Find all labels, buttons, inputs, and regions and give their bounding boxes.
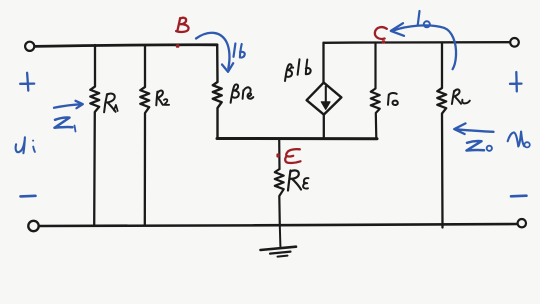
annotations: blue pen [16,11,530,196]
label beta-re [231,84,239,102]
resistor RE [275,169,284,225]
labels: black handwriting [104,59,470,190]
arrow Io [393,25,457,69]
label beta-Ib (source gain) [285,64,292,81]
label Io [418,11,420,26]
node E label [285,149,300,163]
dependent current source beta-Ib [322,43,324,83]
label R2 [156,91,163,106]
input terminal top-left [25,42,34,51]
node C label [375,27,387,39]
label ro [388,93,397,105]
wire top-left rail [35,45,217,47]
node E stub wire [278,139,280,169]
ground [279,226,282,247]
resistor RC [437,43,446,228]
wire bottom rail [39,224,517,226]
resistor beta-re [213,45,222,139]
wire emitter bus [217,137,377,140]
terminal bottom-right [518,219,526,227]
minus sign input [21,195,36,198]
node E junction dot [276,153,279,157]
minus sign output [511,194,527,197]
plus sign input [20,73,34,91]
label Zi [55,118,73,128]
label R1 [104,94,116,113]
arrow Zi [54,101,83,108]
node B junction dot [176,44,180,48]
terminal bottom-left [28,221,38,231]
wire top-right rail [324,41,511,44]
node C junction dot [382,40,385,43]
label Vo [508,132,525,147]
label RC [452,89,461,104]
resistor R1 [90,45,99,225]
resistor R2 [140,45,149,225]
resistor ro [371,43,380,139]
label Zo [467,141,485,150]
node B label [176,18,188,32]
arrow Ib [196,33,229,69]
label RE [288,170,301,190]
label Ib [234,44,236,57]
arrow Zo [454,123,493,134]
terminal top-right [510,38,519,47]
labels: red node names [176,18,387,163]
label Vi [16,137,25,153]
plus sign output [510,72,522,91]
